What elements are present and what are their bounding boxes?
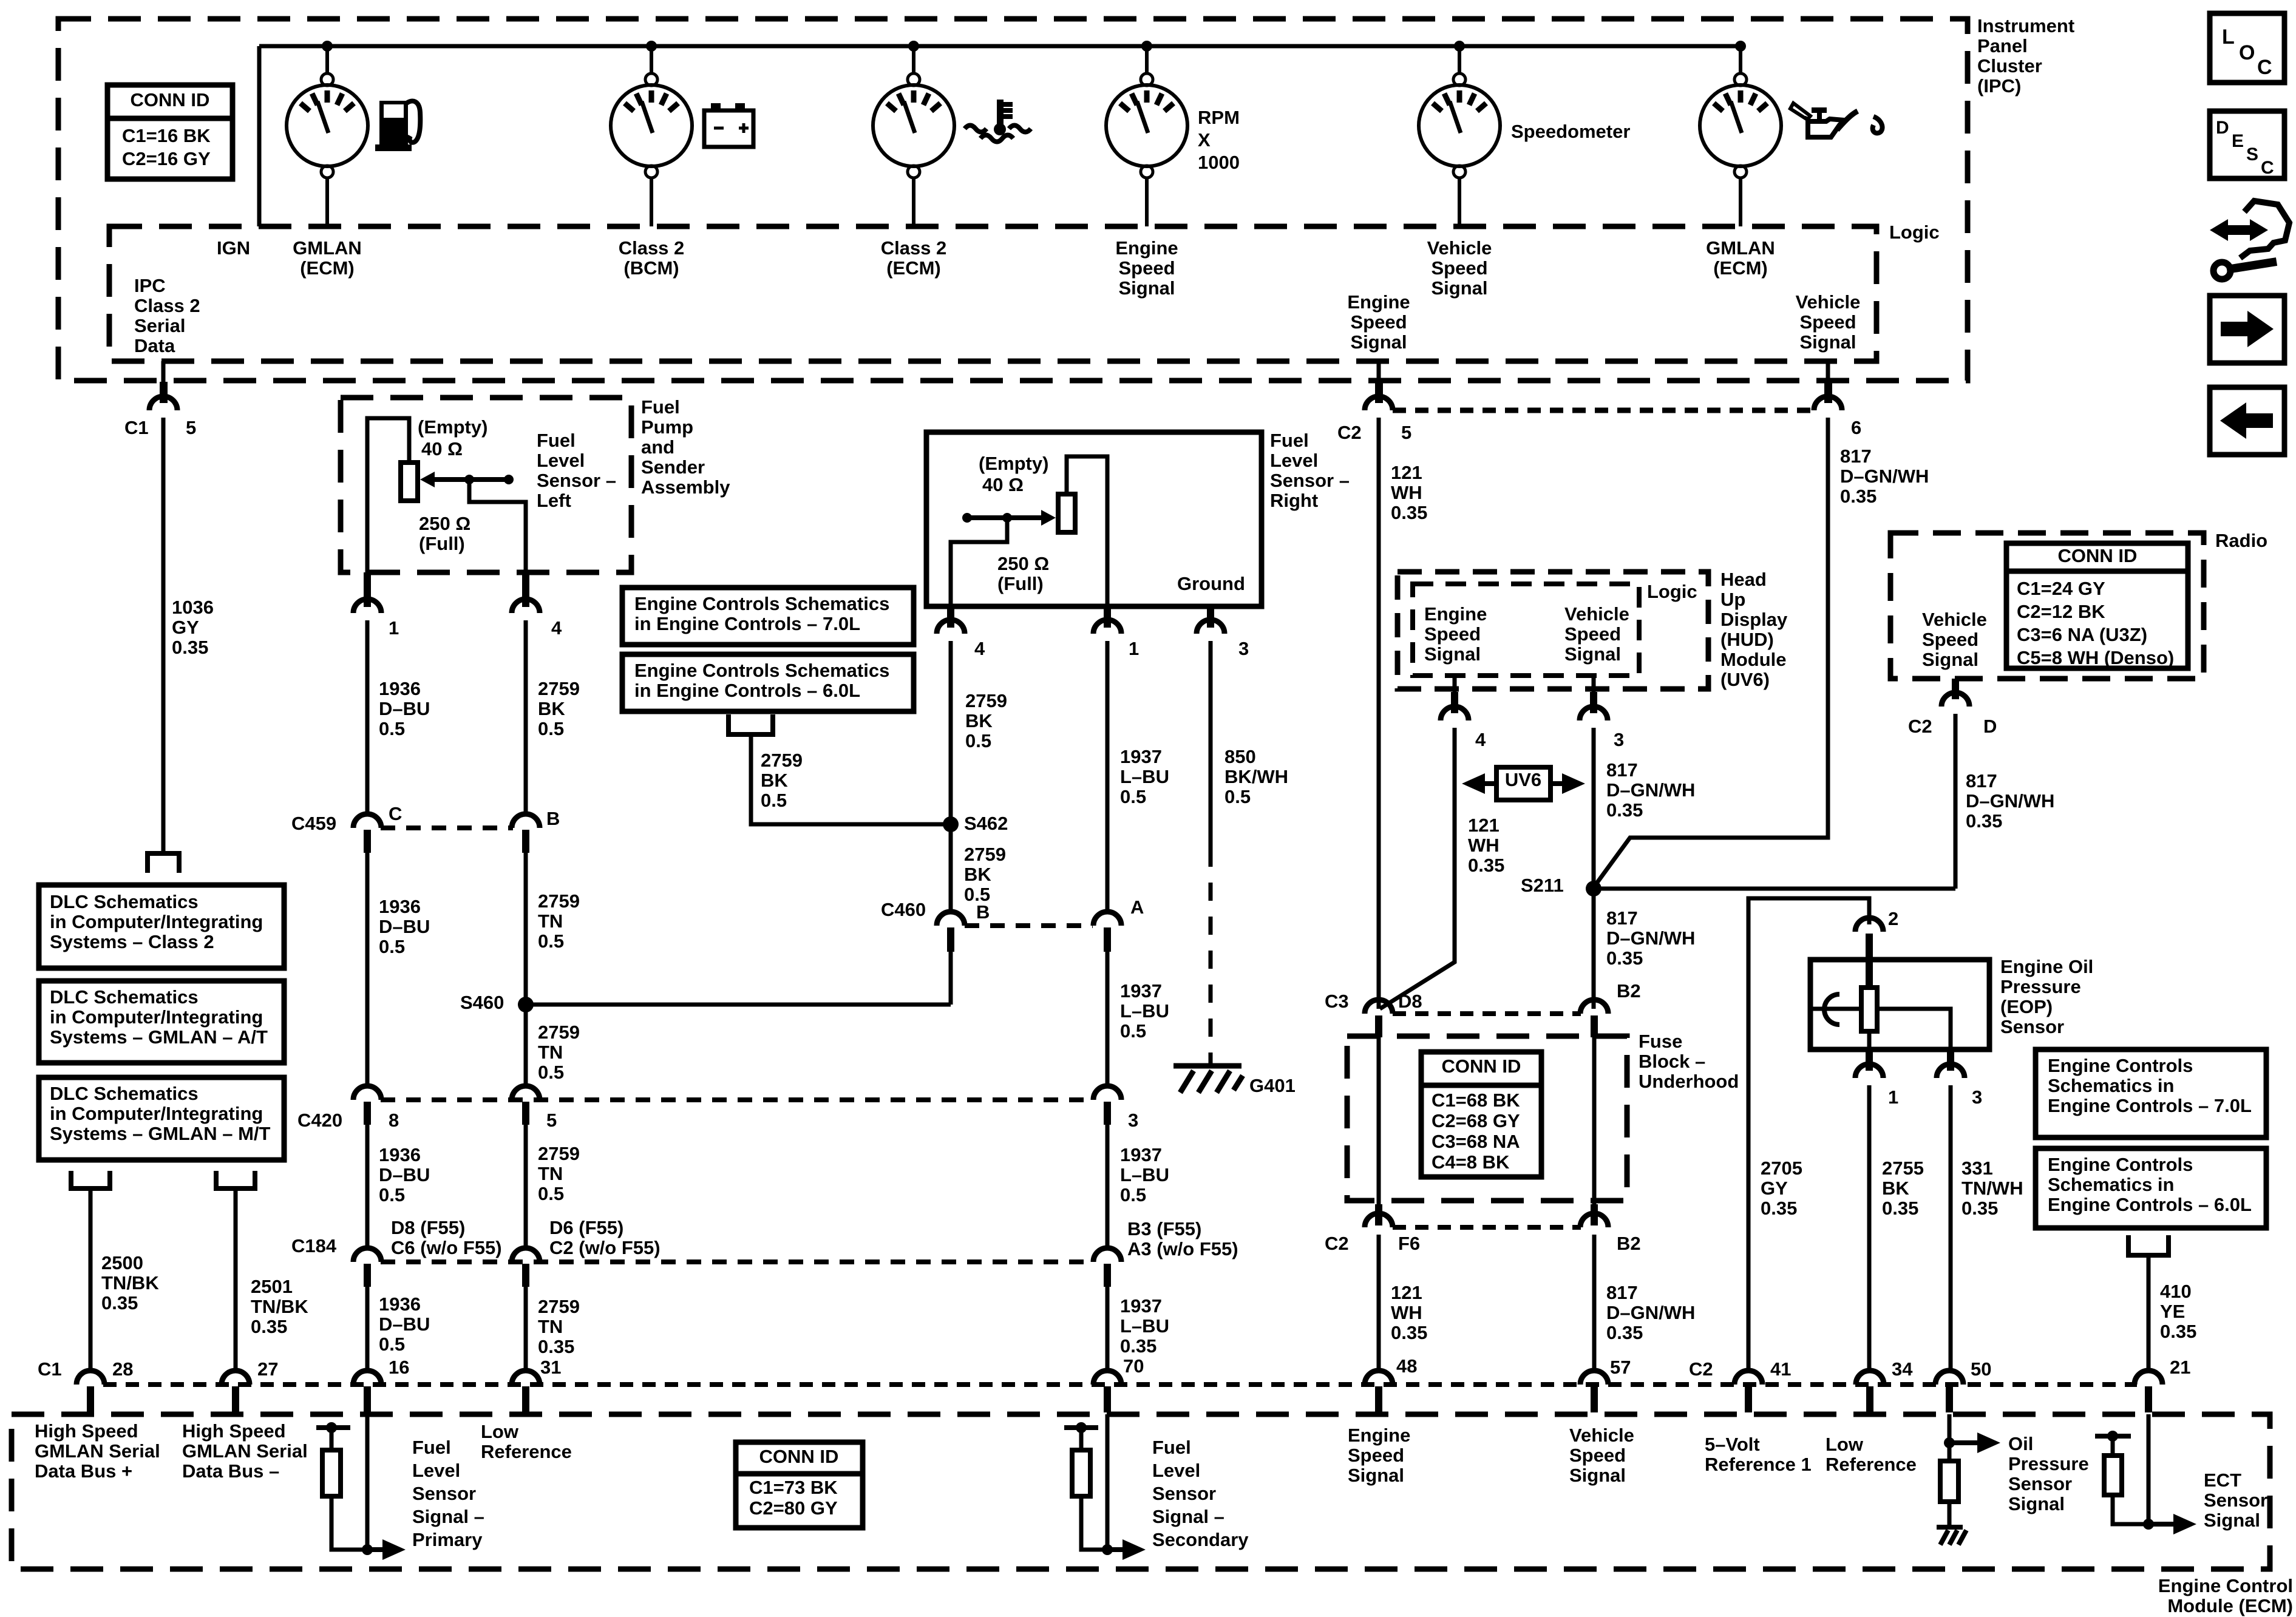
ECM connector row dashes: [103, 1382, 2137, 1387]
svg-text:Signal –: Signal –: [412, 1506, 484, 1527]
svg-text:B3 (F55): B3 (F55): [1127, 1218, 1201, 1239]
svg-text:Reference 1: Reference 1: [1705, 1454, 1812, 1475]
svg-text:2759: 2759: [538, 1296, 580, 1317]
svg-text:Level: Level: [1270, 450, 1318, 471]
svg-text:5: 5: [1401, 422, 1411, 443]
svg-text:Level: Level: [537, 450, 585, 471]
svg-text:C1=24 GY: C1=24 GY: [2017, 578, 2105, 599]
label 2 (EOP): [1888, 908, 1898, 929]
svg-text:(Empty): (Empty): [979, 453, 1048, 474]
label B2 (top): [1617, 980, 1641, 1002]
Engine Control Module dashed box: [12, 1414, 2270, 1569]
label 250 ohm (Full): [419, 513, 470, 554]
svg-text:DLC Schematics: DLC Schematics: [50, 986, 199, 1008]
svg-text:Systems – GMLAN – A/T: Systems – GMLAN – A/T: [50, 1026, 268, 1048]
DLC Schematics box Class 2: [39, 885, 284, 968]
svg-text:C2: C2: [1337, 422, 1362, 443]
radio C2-D connector: [1941, 679, 1969, 889]
svg-text:(ECM): (ECM): [886, 257, 941, 279]
svg-text:D–GN/WH: D–GN/WH: [1606, 927, 1695, 949]
svg-text:GMLAN: GMLAN: [293, 237, 362, 259]
fuse block connector row top: [1365, 1000, 1608, 1037]
wire label 2705 GY 0.35: [1761, 1158, 1802, 1219]
svg-text:3: 3: [1128, 1110, 1138, 1131]
svg-text:(Full): (Full): [419, 533, 465, 554]
svg-text:0.35: 0.35: [538, 1336, 574, 1357]
wire label 2500 TN/BK 0.35: [101, 1252, 159, 1314]
svg-text:Assembly: Assembly: [641, 476, 730, 498]
svg-text:and: and: [641, 436, 674, 458]
wire IPC C2 pin5 (engine speed): [1377, 361, 1381, 382]
svg-text:0.35: 0.35: [1120, 1335, 1156, 1357]
connector 1 (fuel pump left): [353, 572, 381, 813]
HUD inner Logic dashed box: [1413, 584, 1639, 676]
svg-text:1937: 1937: [1120, 1295, 1162, 1317]
svg-text:Class 2: Class 2: [881, 237, 947, 259]
wire 2759 C420-C184: [524, 1125, 528, 1248]
svg-text:Reference: Reference: [1826, 1454, 1917, 1475]
fuse block connector row bottom: [1365, 1204, 1608, 1227]
svg-text:Signal: Signal: [1922, 649, 1978, 670]
svg-text:Speed: Speed: [1799, 311, 1856, 333]
wire 1936 C420-C184: [365, 1125, 370, 1248]
wire 121 inside fuse block: [1377, 1037, 1381, 1204]
svg-text:1936: 1936: [379, 896, 421, 917]
svg-text:Instrument: Instrument: [1977, 15, 2074, 36]
svg-text:Fuel: Fuel: [1270, 430, 1309, 451]
Engine Controls Schematics 7.0L box (left): [622, 588, 914, 645]
bus junction node x=539: [322, 41, 333, 52]
svg-text:Pressure: Pressure: [2008, 1453, 2089, 1474]
label C1 (ECM row): [38, 1358, 62, 1380]
svg-text:2759: 2759: [538, 1143, 580, 1164]
svg-text:1000: 1000: [1198, 152, 1240, 173]
svg-text:L: L: [2222, 25, 2235, 49]
svg-text:31: 31: [540, 1357, 561, 1378]
connector C1-5 (IPC): [149, 382, 177, 852]
label Speedometer: [1511, 121, 1630, 142]
svg-text:in Engine Controls – 7.0L: in Engine Controls – 7.0L: [634, 613, 860, 634]
battery icon: [704, 103, 753, 147]
HUD outer dashed box: [1398, 572, 1708, 689]
label IPC Class 2 Serial Data: [134, 275, 200, 356]
wire IPC pin6 (vehicle speed): [1826, 361, 1830, 382]
svg-text:C3: C3: [1325, 991, 1349, 1012]
svg-text:Signal: Signal: [1348, 1465, 1404, 1486]
svg-text:CONN ID: CONN ID: [2058, 545, 2138, 566]
svg-text:D–BU: D–BU: [379, 916, 430, 937]
svg-text:C2=80 GY: C2=80 GY: [749, 1497, 838, 1519]
svg-text:C2=68 GY: C2=68 GY: [1432, 1110, 1520, 1131]
svg-text:(BCM): (BCM): [623, 257, 679, 279]
svg-text:2501: 2501: [251, 1276, 293, 1297]
Engine Controls Schematics 6.0L box (right): [2036, 1148, 2266, 1228]
wire label 121 WH 0.35 (HUD): [1468, 815, 1504, 876]
svg-text:Engine Controls: Engine Controls: [2048, 1055, 2193, 1076]
svg-text:Oil: Oil: [2008, 1433, 2033, 1454]
wire label 1937 L-BU 0.5 (right): [1120, 746, 1169, 807]
label pin 3 right: [1238, 638, 1249, 659]
wire label 1936 D-BU 0.5 (c): [379, 1144, 430, 1205]
label S460: [460, 992, 504, 1013]
svg-text:TN: TN: [538, 1042, 563, 1063]
svg-text:S460: S460: [460, 992, 504, 1013]
wire label 2759 TN 0.35: [538, 1296, 580, 1357]
wire 1936 C459-C420: [365, 853, 370, 1086]
label C1 5: [124, 417, 196, 438]
svg-text:Engine Oil: Engine Oil: [2000, 956, 2093, 977]
svg-text:48: 48: [1396, 1355, 1417, 1377]
gauge speedometer (IPC): [1419, 46, 1500, 226]
connector C459 row: [353, 814, 540, 853]
label Fuel Level Sensor - Left: [537, 430, 616, 511]
connector 3 (EOP): [1937, 1049, 1965, 1373]
bus junction node x=1505: [908, 41, 919, 52]
svg-text:DLC Schematics: DLC Schematics: [50, 1083, 199, 1104]
svg-text:21: 21: [2170, 1357, 2190, 1378]
label (Empty) 40 ohm (right): [979, 453, 1048, 495]
svg-text:817: 817: [1840, 446, 1872, 467]
svg-text:1: 1: [1129, 638, 1139, 659]
svg-text:0.5: 0.5: [379, 718, 405, 739]
svg-text:GMLAN Serial: GMLAN Serial: [182, 1440, 308, 1462]
svg-text:40 Ω: 40 Ω: [421, 438, 463, 459]
wire label 1936 D-BU 0.5 (a): [379, 678, 430, 739]
wire label 817 D-GN/WH 0.35 (below S211): [1606, 907, 1695, 969]
fuel pump icon: [375, 101, 420, 151]
wire 2759 C459-S460: [524, 853, 528, 1005]
svg-text:C460: C460: [881, 899, 926, 920]
svg-text:Engine Controls Schematics: Engine Controls Schematics: [634, 593, 889, 614]
svg-text:0.35: 0.35: [172, 637, 208, 658]
svg-text:Sensor –: Sensor –: [1270, 470, 1350, 491]
svg-text:1937: 1937: [1120, 746, 1162, 767]
CONN ID box (ECM): [736, 1442, 863, 1528]
svg-text:Systems – Class 2: Systems – Class 2: [50, 931, 214, 952]
svg-text:Fuel: Fuel: [537, 430, 576, 451]
svg-text:Class 2: Class 2: [134, 295, 200, 316]
wire label 331 TN/WH 0.35: [1961, 1158, 2023, 1219]
wire label 817 D-GN/WH 0.35 (IPC-6): [1840, 446, 1929, 507]
svg-text:in Engine Controls – 6.0L: in Engine Controls – 6.0L: [634, 680, 860, 701]
IPC inner Logic dashed box (IPC Class 2 Serial Data): [109, 226, 1877, 361]
Engine Controls Schematics 7.0L box (right): [2036, 1049, 2266, 1137]
svg-text:Logic: Logic: [1647, 581, 1697, 602]
svg-text:BK/WH: BK/WH: [1224, 766, 1288, 787]
wire label 2759 TN 0.5 (c): [538, 1022, 580, 1083]
wire label 850 BK/WH 0.5: [1224, 746, 1288, 807]
svg-text:0.35: 0.35: [1468, 855, 1504, 876]
svg-text:A: A: [1130, 897, 1144, 918]
svg-text:Module: Module: [1720, 649, 1787, 670]
label 250 ohm (Full) (right): [997, 553, 1049, 594]
bracket under DLC box (bus -): [216, 1171, 255, 1188]
svg-text:Fuel: Fuel: [412, 1437, 451, 1458]
label C184: [291, 1235, 337, 1256]
svg-text:Module (ECM): Module (ECM): [2167, 1595, 2293, 1616]
svg-text:Fuse: Fuse: [1639, 1031, 1682, 1052]
svg-text:UV6: UV6: [1505, 769, 1541, 790]
label High Speed GMLAN Serial Data Bus -: [182, 1420, 308, 1482]
svg-text:Serial: Serial: [134, 315, 185, 336]
svg-text:Data Bus +: Data Bus +: [35, 1460, 132, 1482]
label Engine Control Module (ECM): [2158, 1575, 2293, 1616]
svg-text:Engine: Engine: [1115, 237, 1178, 259]
svg-text:0.5: 0.5: [538, 931, 564, 952]
svg-text:0.35: 0.35: [1761, 1198, 1797, 1219]
label IGN: [217, 237, 250, 259]
svg-text:Speed: Speed: [1922, 629, 1978, 650]
svg-text:CONN ID: CONN ID: [759, 1446, 839, 1467]
svg-text:C3=6 NA (U3Z): C3=6 NA (U3Z): [2017, 624, 2147, 645]
svg-text:Sensor –: Sensor –: [537, 470, 616, 491]
svg-text:Fuel: Fuel: [1152, 1437, 1191, 1458]
svg-text:G401: G401: [1249, 1075, 1296, 1096]
HUD pin4 connector: [1380, 676, 1469, 1009]
HUD pin3 connector: [1580, 676, 1608, 1009]
svg-text:3: 3: [1238, 638, 1249, 659]
wire label 121 WH 0.35 (IPC): [1391, 462, 1427, 523]
svg-text:TN/WH: TN/WH: [1961, 1178, 2023, 1199]
wire 817 fuse-ECM: [1592, 1235, 1597, 1373]
connector C420 row: [353, 1086, 1121, 1125]
svg-text:Engine Controls Schematics: Engine Controls Schematics: [634, 660, 889, 681]
svg-text:C420: C420: [297, 1110, 342, 1131]
svg-text:D: D: [2216, 118, 2229, 138]
svg-text:250 Ω: 250 Ω: [997, 553, 1049, 574]
svg-text:34: 34: [1892, 1358, 1913, 1380]
label pin C: [389, 803, 402, 824]
svg-text:0.5: 0.5: [965, 730, 991, 751]
label C2 5: [1337, 422, 1411, 443]
svg-text:C: C: [389, 803, 402, 824]
wire 2759 C184-ECM: [524, 1287, 528, 1373]
label Ground: [1177, 573, 1245, 594]
label Radio: [2215, 530, 2267, 551]
svg-text:(ECM): (ECM): [300, 257, 355, 279]
svg-text:Speed: Speed: [1350, 311, 1407, 333]
svg-text:1: 1: [1888, 1086, 1898, 1108]
sidebar schematic icon (arrows and wrench): [2210, 201, 2289, 279]
fuel level sensor left potentiometer: [367, 418, 526, 572]
Radio dashed box: [1890, 533, 2204, 679]
label S462: [964, 813, 1008, 834]
wire label 2759 BK 0.5 (a): [538, 678, 580, 739]
svg-text:D–GN/WH: D–GN/WH: [1606, 779, 1695, 801]
sidebar LOC box: [2210, 13, 2284, 83]
label Low Reference (right): [1826, 1434, 1917, 1475]
oil can icon: [1790, 103, 1883, 137]
svg-text:D: D: [1983, 716, 1997, 737]
bus junction node x=1889: [1141, 41, 1152, 52]
svg-text:WH: WH: [1391, 1302, 1422, 1323]
svg-text:40 Ω: 40 Ω: [982, 474, 1024, 495]
svg-text:Right: Right: [1270, 490, 1318, 511]
svg-text:D6 (F55): D6 (F55): [549, 1217, 623, 1238]
svg-text:27: 27: [257, 1358, 278, 1380]
label GMLAN (ECM) oil gauge: [1706, 237, 1775, 279]
svg-text:0.5: 0.5: [1120, 1020, 1146, 1042]
svg-text:Speed: Speed: [1569, 1445, 1626, 1466]
svg-text:0.35: 0.35: [101, 1292, 138, 1314]
svg-text:Sensor: Sensor: [1152, 1483, 1216, 1504]
Fuse Block dashed box: [1347, 1036, 1627, 1201]
svg-text:Schematics in: Schematics in: [2048, 1075, 2174, 1096]
svg-text:Block –: Block –: [1639, 1051, 1705, 1072]
svg-text:C2: C2: [1908, 716, 1932, 737]
svg-text:Signal: Signal: [1350, 331, 1407, 353]
svg-text:in Computer/Integrating: in Computer/Integrating: [50, 1103, 263, 1124]
svg-text:O: O: [2239, 41, 2255, 64]
svg-text:Engine: Engine: [1347, 291, 1410, 313]
wire label 1936 D-BU 0.5 (b): [379, 896, 430, 957]
label 3 (HUD): [1614, 729, 1624, 750]
label C460: [881, 899, 926, 920]
label D8 C6 (F55): [391, 1217, 502, 1258]
svg-text:1936: 1936: [379, 1293, 421, 1315]
label Engine Speed Signal (IPC output): [1347, 291, 1410, 353]
svg-text:0.35: 0.35: [1606, 799, 1643, 821]
label ECT Sensor Signal: [2204, 1470, 2267, 1531]
svg-text:70: 70: [1123, 1355, 1144, 1377]
svg-text:Sender: Sender: [641, 456, 705, 478]
wire 2759 TN C460-S460: [949, 952, 953, 1005]
CONN ID box (Radio): [2006, 543, 2188, 668]
svg-text:2759: 2759: [965, 690, 1007, 711]
label 4 (HUD): [1475, 729, 1486, 750]
svg-text:Engine Controls – 6.0L: Engine Controls – 6.0L: [2048, 1194, 2252, 1215]
gauge fuel (IPC): [287, 46, 368, 226]
svg-text:C2: C2: [1325, 1233, 1349, 1254]
svg-text:57: 57: [1610, 1357, 1631, 1378]
svg-text:D–BU: D–BU: [379, 1164, 430, 1185]
svg-text:C1=16 BK: C1=16 BK: [122, 125, 211, 146]
svg-text:B: B: [546, 808, 560, 829]
svg-text:Signal: Signal: [1799, 331, 1856, 353]
wire IPC C1 pin5: [161, 361, 166, 382]
svg-text:ECT: ECT: [2204, 1470, 2241, 1491]
label Fuel Level Sensor Signal - Primary: [412, 1437, 484, 1550]
svg-text:Panel: Panel: [1977, 35, 2028, 56]
ignition bus wire: [259, 46, 1741, 226]
wire 850 dashed to ground: [1209, 849, 1213, 1063]
wire label 817 D-GN/WH 0.35 (HUD): [1606, 759, 1695, 821]
svg-text:(HUD): (HUD): [1720, 629, 1774, 650]
wire label 1937 L-BU 0.5 (d): [1120, 1144, 1169, 1205]
label C2 F6: [1325, 1233, 1420, 1254]
svg-text:0.35: 0.35: [1961, 1198, 1998, 1219]
svg-text:TN: TN: [538, 1163, 563, 1184]
wire 817 inside fuse block: [1592, 1037, 1597, 1204]
label pin B (C460): [976, 901, 990, 923]
wire label 1936 D-BU 0.5 (d): [379, 1293, 430, 1355]
svg-text:D–BU: D–BU: [379, 698, 430, 719]
svg-text:850: 850: [1224, 746, 1256, 767]
svg-text:Pump: Pump: [641, 416, 693, 438]
svg-text:Pressure: Pressure: [2000, 976, 2081, 997]
connector 2 (EOP): [1855, 918, 1883, 961]
wire label 2759 BK 0.5 (right): [965, 690, 1007, 751]
svg-text:Engine: Engine: [1348, 1425, 1410, 1446]
svg-text:Speed: Speed: [1564, 623, 1621, 645]
svg-text:5–Volt: 5–Volt: [1705, 1434, 1760, 1455]
svg-text:Data: Data: [134, 335, 175, 356]
label 5-Volt Reference 1: [1705, 1434, 1812, 1475]
svg-text:Sensor: Sensor: [2008, 1473, 2072, 1494]
svg-text:121: 121: [1391, 462, 1422, 483]
svg-text:B2: B2: [1617, 1233, 1641, 1254]
svg-text:D8 (F55): D8 (F55): [391, 1217, 465, 1238]
CONN ID box (fuse block): [1421, 1052, 1541, 1177]
svg-text:3: 3: [1614, 729, 1624, 750]
svg-text:BK: BK: [761, 770, 788, 791]
fuel level sensor right potentiometer: [951, 456, 1107, 606]
label Class 2 (ECM): [881, 237, 947, 279]
label Vehicle Speed Signal (ECM): [1569, 1425, 1634, 1486]
connector C184 row: [353, 1248, 1121, 1287]
sidebar left arrow box: [2210, 387, 2284, 455]
svg-text:C6 (w/o F55): C6 (w/o F55): [391, 1237, 502, 1258]
svg-text:L–BU: L–BU: [1120, 1315, 1169, 1337]
svg-text:Speed: Speed: [1348, 1445, 1404, 1466]
Engine Controls Schematics 6.0L box (left): [622, 654, 914, 711]
svg-text:2500: 2500: [101, 1252, 143, 1273]
svg-text:High Speed: High Speed: [35, 1420, 138, 1442]
label Engine Speed Signal (HUD): [1424, 603, 1487, 665]
svg-text:Logic: Logic: [1889, 222, 1940, 243]
svg-text:16: 16: [389, 1357, 409, 1378]
svg-text:YE: YE: [2160, 1301, 2185, 1322]
label pin A (C460): [1130, 897, 1144, 918]
svg-text:1937: 1937: [1120, 980, 1162, 1002]
svg-text:Primary: Primary: [412, 1529, 483, 1550]
svg-text:Signal: Signal: [1118, 277, 1175, 299]
svg-text:(ECM): (ECM): [1713, 257, 1768, 279]
svg-text:BK: BK: [538, 698, 565, 719]
svg-text:C1=68 BK: C1=68 BK: [1432, 1090, 1520, 1111]
wire 1936 C184-ECM: [365, 1287, 370, 1373]
label Class 2 (BCM): [619, 237, 685, 279]
svg-text:6: 6: [1851, 417, 1861, 438]
IPC output connector row dashes: [1393, 408, 1815, 413]
svg-text:Signal: Signal: [1569, 1465, 1626, 1486]
svg-text:Level: Level: [1152, 1460, 1200, 1481]
label Low Reference (left): [481, 1421, 572, 1462]
svg-text:2759: 2759: [538, 678, 580, 699]
label Fuse Block - Underhood: [1639, 1031, 1739, 1092]
svg-text:L–BU: L–BU: [1120, 766, 1169, 787]
wire label 2501 TN/BK 0.35: [251, 1276, 308, 1337]
svg-text:CONN ID: CONN ID: [1442, 1056, 1521, 1077]
svg-text:D–BU: D–BU: [379, 1314, 430, 1335]
gauge voltage (IPC): [611, 46, 692, 226]
svg-text:D–GN/WH: D–GN/WH: [1606, 1302, 1695, 1323]
svg-text:TN: TN: [538, 910, 563, 932]
bus junction node x=1073: [646, 41, 657, 52]
svg-text:Up: Up: [1720, 589, 1745, 610]
svg-text:C: C: [2261, 158, 2274, 178]
svg-text:(Full): (Full): [997, 573, 1044, 594]
svg-text:817: 817: [1606, 1282, 1638, 1303]
svg-text:0.35: 0.35: [1840, 486, 1877, 507]
svg-text:C2 (w/o F55): C2 (w/o F55): [549, 1237, 661, 1258]
wire 2759 S460-C420: [524, 1005, 528, 1086]
svg-text:(IPC): (IPC): [1977, 75, 2021, 97]
label pin B: [546, 808, 560, 829]
svg-text:Sensor: Sensor: [2000, 1016, 2064, 1037]
connector C2-5 (IPC): [1365, 382, 1393, 1009]
svg-text:4: 4: [974, 638, 985, 659]
